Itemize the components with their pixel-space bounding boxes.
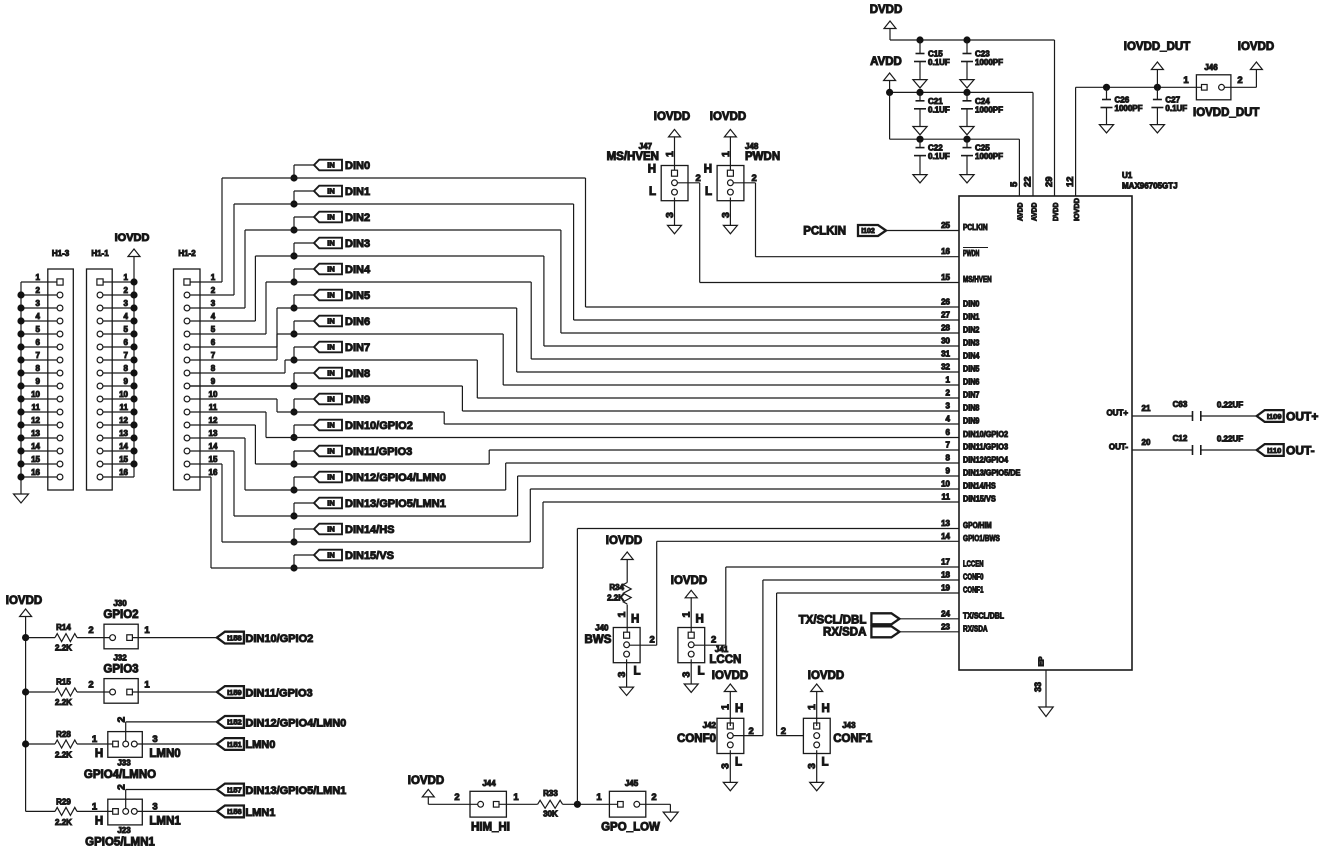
net tag IN DIN3 xyxy=(314,238,342,249)
net tag IN DIN11/GPIO3 xyxy=(314,446,342,457)
svg-text:2: 2 xyxy=(115,717,127,723)
svg-text:12: 12 xyxy=(119,416,128,425)
svg-text:DIN10/GPIO2: DIN10/GPIO2 xyxy=(345,420,413,432)
svg-text:EP: EP xyxy=(1037,656,1046,666)
svg-text:3: 3 xyxy=(211,299,216,308)
svg-text:IOVDD: IOVDD xyxy=(606,535,642,547)
svg-text:IN: IN xyxy=(327,213,335,222)
svg-text:PWDN: PWDN xyxy=(963,249,980,258)
svg-text:IN: IN xyxy=(327,421,335,430)
ground (C26) xyxy=(1099,125,1113,133)
wire H1-2 pin 1 to DIN0 row xyxy=(190,281,222,283)
net tag IN DIN15/VS xyxy=(314,550,342,561)
wire tag stub DIN10/GPIO2 xyxy=(294,424,314,426)
net tag IN DIN2 xyxy=(314,212,342,223)
svg-text:J33: J33 xyxy=(117,759,131,768)
node DIN12/GPIO4/LMN0 junction xyxy=(290,486,297,493)
svg-text:14: 14 xyxy=(31,442,40,451)
node DIN3 junction xyxy=(290,252,297,259)
svg-text:2: 2 xyxy=(1237,75,1242,86)
net tag IN DIN10/GPIO2 xyxy=(314,420,342,431)
svg-text:16: 16 xyxy=(209,468,218,477)
svg-text:IOVDD: IOVDD xyxy=(115,232,150,244)
wire DIN13/GPIO5/LMN1 to U1 xyxy=(234,515,518,517)
capacitor C15 0.1UF xyxy=(919,40,921,54)
svg-text:2: 2 xyxy=(946,389,951,398)
svg-text:6: 6 xyxy=(211,338,216,347)
svg-text:2: 2 xyxy=(115,784,127,790)
svg-text:PCLKIN: PCLKIN xyxy=(803,226,846,238)
svg-text:IOVDD: IOVDD xyxy=(1072,197,1081,221)
wire tag stub DIN12/GPIO4/LMN0 xyxy=(294,476,314,478)
svg-text:5: 5 xyxy=(211,325,216,334)
svg-text:1: 1 xyxy=(92,734,98,745)
svg-text:9: 9 xyxy=(211,377,216,386)
svg-text:IOVDD_DUT: IOVDD_DUT xyxy=(1193,107,1259,119)
svg-text:DIN5: DIN5 xyxy=(963,365,980,374)
net tag I157 DIN13/GPIO5/LMN1 xyxy=(217,784,244,796)
svg-text:I156: I156 xyxy=(227,807,242,816)
capacitor C27 0.1UF xyxy=(1156,87,1158,99)
wire AVDD rail 1 xyxy=(889,80,891,92)
wire J42 pin 2 to U1 CONF0 xyxy=(733,735,763,737)
svg-text:J32: J32 xyxy=(113,654,127,663)
ground (J47) xyxy=(668,225,682,233)
svg-text:13: 13 xyxy=(119,429,128,438)
svg-text:15: 15 xyxy=(209,455,218,464)
ground (C22) xyxy=(913,175,927,183)
svg-text:I157: I157 xyxy=(227,785,242,794)
svg-text:OUT-: OUT- xyxy=(1109,443,1128,452)
svg-text:LMN1: LMN1 xyxy=(245,807,275,819)
svg-text:11: 11 xyxy=(32,403,41,412)
svg-text:MAX96705GTJ: MAX96705GTJ xyxy=(1122,182,1178,191)
svg-text:I159: I159 xyxy=(227,688,242,697)
svg-text:21: 21 xyxy=(1142,404,1151,413)
svg-text:0.1UF: 0.1UF xyxy=(928,105,950,114)
svg-text:GPIO3: GPIO3 xyxy=(103,664,138,676)
svg-text:13: 13 xyxy=(209,429,218,438)
svg-text:IOVDD: IOVDD xyxy=(671,575,707,587)
svg-text:15: 15 xyxy=(119,455,128,464)
svg-text:DIN14/HS: DIN14/HS xyxy=(963,482,996,491)
svg-text:6: 6 xyxy=(36,338,41,347)
svg-text:4: 4 xyxy=(124,312,129,321)
svg-text:TX/SCL/DBL: TX/SCL/DBL xyxy=(799,615,867,627)
svg-text:14: 14 xyxy=(209,442,218,451)
ground (C15) xyxy=(913,80,927,88)
wire R33 to J45 junction xyxy=(563,803,618,805)
ground (C27) xyxy=(1150,125,1164,133)
svg-text:0.1UF: 0.1UF xyxy=(928,58,950,67)
wire DIN11/GPIO3 to U1 xyxy=(255,463,489,465)
svg-text:OUT-: OUT- xyxy=(1286,444,1315,458)
svg-text:IN: IN xyxy=(327,473,335,482)
svg-text:9: 9 xyxy=(946,467,951,476)
svg-text:IOVDD: IOVDD xyxy=(6,595,42,607)
svg-text:IOVDD: IOVDD xyxy=(710,111,746,123)
svg-text:1000PF: 1000PF xyxy=(975,152,1003,161)
svg-text:DIN4: DIN4 xyxy=(963,352,980,361)
svg-text:30: 30 xyxy=(941,337,950,346)
svg-text:RX/SDA: RX/SDA xyxy=(963,624,988,633)
net tag IN DIN8 xyxy=(314,368,342,379)
svg-text:DIN2: DIN2 xyxy=(345,212,370,224)
svg-text:25: 25 xyxy=(941,221,950,230)
svg-text:IN: IN xyxy=(327,161,335,170)
wire J41 pin 2 to U1 LCCEN xyxy=(694,644,726,646)
ground (C25) xyxy=(960,175,974,183)
svg-text:1: 1 xyxy=(36,273,41,282)
wire tag stub DIN14/HS xyxy=(294,528,314,530)
wire DIN5 to U1 xyxy=(277,307,517,309)
wire IOVDD stem to H1-1 bus xyxy=(133,256,135,282)
wire H1-2 pin 5 to DIN4 row xyxy=(190,333,266,335)
ground (H1-3 bus) xyxy=(14,494,29,503)
wire tag stub DIN0 xyxy=(294,164,314,166)
wire DIN15/VS to U1 xyxy=(211,567,543,569)
svg-text:18: 18 xyxy=(941,571,950,580)
svg-text:13: 13 xyxy=(31,429,40,438)
net tag IN DIN0 xyxy=(314,160,342,171)
svg-text:R34: R34 xyxy=(609,583,624,592)
node DIN15/VS junction xyxy=(290,564,297,571)
svg-text:14: 14 xyxy=(941,532,950,541)
wire tag stub DIN3 xyxy=(294,242,314,244)
svg-text:MS/HVEN: MS/HVEN xyxy=(607,151,659,163)
node DIN2 junction xyxy=(290,226,297,233)
svg-text:IN: IN xyxy=(327,551,335,560)
svg-text:6: 6 xyxy=(124,338,129,347)
svg-text:C12: C12 xyxy=(1173,434,1188,443)
svg-text:C63: C63 xyxy=(1173,400,1188,409)
svg-text:J44: J44 xyxy=(482,779,496,788)
svg-text:R14: R14 xyxy=(56,623,71,632)
wire IOVDD to J44 pin 2 xyxy=(427,796,429,804)
svg-text:13: 13 xyxy=(941,519,950,528)
svg-text:1: 1 xyxy=(124,273,129,282)
svg-text:H1-3: H1-3 xyxy=(52,249,70,258)
svg-text:DIN14/HS: DIN14/HS xyxy=(345,524,395,536)
svg-text:IN: IN xyxy=(327,369,335,378)
svg-text:30K: 30K xyxy=(543,810,558,819)
wire DIN7 to U1 xyxy=(285,359,477,361)
svg-text:DIN8: DIN8 xyxy=(345,368,370,380)
svg-text:2: 2 xyxy=(36,286,41,295)
svg-text:DIN3: DIN3 xyxy=(963,339,980,348)
svg-text:15: 15 xyxy=(941,273,950,282)
svg-text:DIN12/GPIO4: DIN12/GPIO4 xyxy=(963,456,1009,465)
wire DIN10/GPIO2 to U1 xyxy=(266,437,959,439)
wire tag stub DIN7 xyxy=(294,346,314,348)
wire DIN12/GPIO4/LMN0 to U1 xyxy=(245,489,506,491)
net tag I109 OUT+ xyxy=(1257,410,1284,422)
capacitor C23 1000PF xyxy=(966,40,968,54)
svg-text:0.22UF: 0.22UF xyxy=(1217,435,1243,444)
ground (C24) xyxy=(960,127,974,135)
net tag IN DIN9 xyxy=(314,394,342,405)
wire H1-2 pin 11 to DIN10 row xyxy=(190,411,266,413)
wire DIN8 to U1 xyxy=(190,385,462,387)
wire DIN14/HS to U1 xyxy=(222,541,530,543)
svg-text:IOVDD: IOVDD xyxy=(408,775,444,787)
net tag IN DIN14/HS xyxy=(314,524,342,535)
svg-text:I151: I151 xyxy=(227,740,242,749)
svg-text:5: 5 xyxy=(36,325,41,334)
wire J23 pin 2 to tag I157 xyxy=(125,790,127,809)
wires H1-3 pins to ground bus xyxy=(21,281,57,283)
svg-text:23: 23 xyxy=(941,622,950,631)
svg-text:I152: I152 xyxy=(227,718,242,727)
svg-text:R28: R28 xyxy=(56,730,71,739)
svg-text:GPIO1/BWS: GPIO1/BWS xyxy=(963,534,1000,543)
svg-text:3: 3 xyxy=(36,299,41,308)
node GPO/HIM junction xyxy=(574,801,581,808)
svg-text:LMN0: LMN0 xyxy=(149,748,180,760)
svg-text:DIN11/GPIO3: DIN11/GPIO3 xyxy=(963,443,1009,452)
svg-text:1: 1 xyxy=(720,151,732,157)
svg-text:DVDD: DVDD xyxy=(870,4,903,16)
svg-text:DIN12/GPIO4/LMN0: DIN12/GPIO4/LMN0 xyxy=(245,717,346,729)
svg-text:CONF1: CONF1 xyxy=(833,733,873,745)
wire DIN3 to U1 xyxy=(255,255,544,257)
svg-text:DIN10/GPIO2: DIN10/GPIO2 xyxy=(245,633,313,645)
svg-text:H: H xyxy=(704,164,712,176)
wire PCLKIN to U1 xyxy=(886,230,959,232)
node DIN4 junction xyxy=(290,278,297,285)
net tag IN DIN7 xyxy=(314,342,342,353)
svg-text:5: 5 xyxy=(1009,181,1020,187)
net tag IN DIN13/GPIO5/LMN1 xyxy=(314,498,342,509)
svg-text:DIN1: DIN1 xyxy=(345,186,370,198)
svg-text:1: 1 xyxy=(92,802,98,813)
svg-text:10: 10 xyxy=(119,390,128,399)
node DIN6 junction xyxy=(290,330,297,337)
svg-text:DIN10/GPIO2: DIN10/GPIO2 xyxy=(963,430,1009,439)
net tag IN DIN5 xyxy=(314,290,342,301)
svg-text:DIN4: DIN4 xyxy=(345,264,371,276)
svg-text:R33: R33 xyxy=(543,789,558,798)
ground (C23) xyxy=(960,80,974,88)
svg-text:2: 2 xyxy=(454,792,459,803)
svg-text:IN: IN xyxy=(327,343,335,352)
wire DIN4 to U1 xyxy=(266,281,531,283)
svg-text:8: 8 xyxy=(211,364,216,373)
svg-text:DIN9: DIN9 xyxy=(963,417,980,426)
svg-text:IN: IN xyxy=(327,239,335,248)
wire tag stub DIN13/GPIO5/LMN1 xyxy=(294,502,314,504)
wire tag stub DIN4 xyxy=(294,268,314,270)
svg-text:IOVDD: IOVDD xyxy=(654,111,690,123)
svg-text:2: 2 xyxy=(211,286,216,295)
wire DVDD rail xyxy=(889,28,891,40)
svg-text:2: 2 xyxy=(88,625,93,636)
svg-text:DIN13/GPIO5/DE: DIN13/GPIO5/DE xyxy=(963,469,1021,478)
wire J32 to tag I159 xyxy=(133,691,217,693)
svg-text:29: 29 xyxy=(1044,176,1055,187)
svg-text:24: 24 xyxy=(941,609,950,618)
svg-text:7: 7 xyxy=(124,351,129,360)
ground (J48) xyxy=(723,225,737,233)
svg-text:J41: J41 xyxy=(715,645,729,654)
svg-text:IOVDD_DUT: IOVDD_DUT xyxy=(1124,41,1190,53)
svg-text:IN: IN xyxy=(327,265,335,274)
net tag I110 OUT- xyxy=(1257,444,1284,456)
wire tag stub DIN8 xyxy=(294,372,314,374)
net tag I156 LMN1 xyxy=(217,806,244,818)
svg-text:4: 4 xyxy=(211,312,216,321)
svg-text:IOVDD: IOVDD xyxy=(808,670,844,682)
wire J47 pin 2 to U1 MS/HVEN xyxy=(677,182,699,184)
node DIN13/GPIO5/LMN1 junction xyxy=(290,512,297,519)
svg-text:AVDD: AVDD xyxy=(870,56,902,68)
svg-text:L: L xyxy=(705,186,712,198)
svg-text:H: H xyxy=(95,748,103,760)
svg-text:DIN15/VS: DIN15/VS xyxy=(963,495,996,504)
svg-text:LMN0: LMN0 xyxy=(245,739,275,751)
svg-text:IN: IN xyxy=(327,447,335,456)
svg-text:H: H xyxy=(696,614,704,626)
wire tag stub DIN11/GPIO3 xyxy=(294,450,314,452)
svg-text:LMN1: LMN1 xyxy=(149,816,181,828)
wire DIN9 to U1 xyxy=(277,411,444,413)
svg-text:10: 10 xyxy=(31,390,40,399)
svg-text:DIN11/GPIO3: DIN11/GPIO3 xyxy=(245,687,312,699)
wire J43 pin 2 to U1 CONF1 xyxy=(777,735,804,737)
node DIN9 junction xyxy=(290,408,297,415)
wire J33 pin 2 to tag I152 xyxy=(125,722,127,741)
svg-text:26: 26 xyxy=(941,298,950,307)
svg-text:DIN13/GPIO5/LMN1: DIN13/GPIO5/LMN1 xyxy=(345,498,446,510)
svg-text:DIN11/GPIO3: DIN11/GPIO3 xyxy=(345,446,412,458)
svg-text:DIN7: DIN7 xyxy=(345,342,370,354)
svg-text:8: 8 xyxy=(36,364,41,373)
wire DIN0 to U1 xyxy=(222,177,586,179)
wire IOVDD GPIO bus xyxy=(25,616,27,811)
svg-text:PWDN: PWDN xyxy=(745,151,780,163)
net tag IN DIN4 xyxy=(314,264,342,275)
svg-text:12: 12 xyxy=(1065,176,1076,187)
svg-text:IN: IN xyxy=(327,395,335,404)
svg-text:15: 15 xyxy=(31,455,40,464)
svg-text:20: 20 xyxy=(1142,438,1151,447)
net tag IN DIN1 xyxy=(314,186,342,197)
svg-text:DIN15/VS: DIN15/VS xyxy=(345,550,394,562)
svg-text:6: 6 xyxy=(946,428,951,437)
svg-text:10: 10 xyxy=(941,480,950,489)
svg-text:1: 1 xyxy=(1183,75,1189,86)
wire H1-3 ground bus xyxy=(20,282,22,494)
svg-text:J30: J30 xyxy=(113,599,127,608)
svg-text:9: 9 xyxy=(36,377,41,386)
node DIN11/GPIO3 junction xyxy=(290,460,297,467)
svg-text:IN: IN xyxy=(327,291,335,300)
svg-text:2: 2 xyxy=(124,286,129,295)
wire H1-2 pin 6 to DIN5 row xyxy=(190,346,277,348)
svg-text:17: 17 xyxy=(941,558,950,567)
svg-text:LCCN: LCCN xyxy=(709,654,741,666)
wire tag stub DIN9 xyxy=(294,398,314,400)
svg-text:8: 8 xyxy=(124,364,129,373)
svg-text:H: H xyxy=(95,816,103,828)
wires H1-1 pins to IOVDD bus xyxy=(103,281,134,283)
svg-text:DIN8: DIN8 xyxy=(963,404,980,413)
wire J48 pin 2 to U1 PWDN xyxy=(733,182,755,184)
wire J45 pin 2 to ground xyxy=(640,803,671,805)
wire GPO/HIM to U1 pin 13 xyxy=(576,529,578,805)
svg-text:TX/SCL/DBL: TX/SCL/DBL xyxy=(963,611,1004,620)
svg-text:J48: J48 xyxy=(745,142,759,151)
svg-text:1: 1 xyxy=(681,612,693,618)
svg-text:2.2K: 2.2K xyxy=(55,644,72,653)
wire H1-2 pin 3 to DIN2 row xyxy=(190,307,245,309)
capacitor C26 1000PF xyxy=(1106,87,1108,99)
svg-text:2: 2 xyxy=(88,680,93,691)
svg-text:1: 1 xyxy=(144,625,150,636)
ground (EP) xyxy=(1039,707,1053,717)
svg-text:DIN2: DIN2 xyxy=(963,326,980,335)
wire DIN1 to U1 xyxy=(234,203,574,205)
svg-text:CONF0: CONF0 xyxy=(963,573,984,582)
wire H1-2 pin 9 to DIN8 row xyxy=(190,385,294,387)
wire tag stub DIN1 xyxy=(294,190,314,192)
svg-text:2: 2 xyxy=(651,792,656,803)
svg-text:L: L xyxy=(822,757,829,769)
svg-text:GPO/HIM: GPO/HIM xyxy=(963,521,992,530)
svg-text:AVDD: AVDD xyxy=(1029,202,1038,221)
wire AVDD rail 2 xyxy=(889,92,891,139)
svg-text:12: 12 xyxy=(209,416,218,425)
svg-text:I158: I158 xyxy=(227,633,242,642)
svg-text:DIN1: DIN1 xyxy=(963,313,980,322)
wire tag stub DIN5 xyxy=(294,294,314,296)
svg-text:DIN0: DIN0 xyxy=(345,160,370,172)
wire J44 pin 1 to R33 xyxy=(499,803,538,805)
wire DIN6 to U1 xyxy=(277,333,503,335)
svg-text:2: 2 xyxy=(650,635,655,646)
svg-text:32: 32 xyxy=(941,363,950,372)
svg-text:7: 7 xyxy=(946,441,951,450)
svg-text:H: H xyxy=(822,703,830,715)
svg-text:R29: R29 xyxy=(56,798,71,807)
svg-text:L: L xyxy=(634,666,641,678)
svg-text:AVDD: AVDD xyxy=(1016,202,1025,221)
svg-text:IN: IN xyxy=(327,317,335,326)
wire H1-2 pin 16 to DIN15 row xyxy=(190,476,211,478)
wire TX/SCL/DBL to U1 xyxy=(899,618,959,620)
svg-text:1000PF: 1000PF xyxy=(975,105,1003,114)
svg-text:J45: J45 xyxy=(625,779,639,788)
wire J30 to tag I158 xyxy=(133,637,217,639)
svg-text:J43: J43 xyxy=(842,721,856,730)
wire J40 pin 2 to U1 GPIO1/BWS xyxy=(630,644,657,646)
svg-text:33: 33 xyxy=(1033,682,1043,692)
svg-text:0.1UF: 0.1UF xyxy=(1165,104,1187,113)
svg-text:PCLKIN: PCLKIN xyxy=(963,223,988,232)
svg-text:22: 22 xyxy=(1023,176,1034,187)
node DIN10/GPIO2 junction xyxy=(290,434,297,441)
net tag IN DIN6 xyxy=(314,316,342,327)
svg-text:3: 3 xyxy=(946,402,951,411)
ground (J42) xyxy=(723,782,737,790)
svg-text:3: 3 xyxy=(152,734,157,745)
svg-text:DVDD: DVDD xyxy=(1051,202,1060,221)
svg-text:H1-2: H1-2 xyxy=(178,249,196,258)
svg-text:2.2K: 2.2K xyxy=(55,751,72,760)
svg-text:J42: J42 xyxy=(703,721,717,730)
svg-text:J23: J23 xyxy=(117,826,131,835)
svg-text:31: 31 xyxy=(941,350,950,359)
